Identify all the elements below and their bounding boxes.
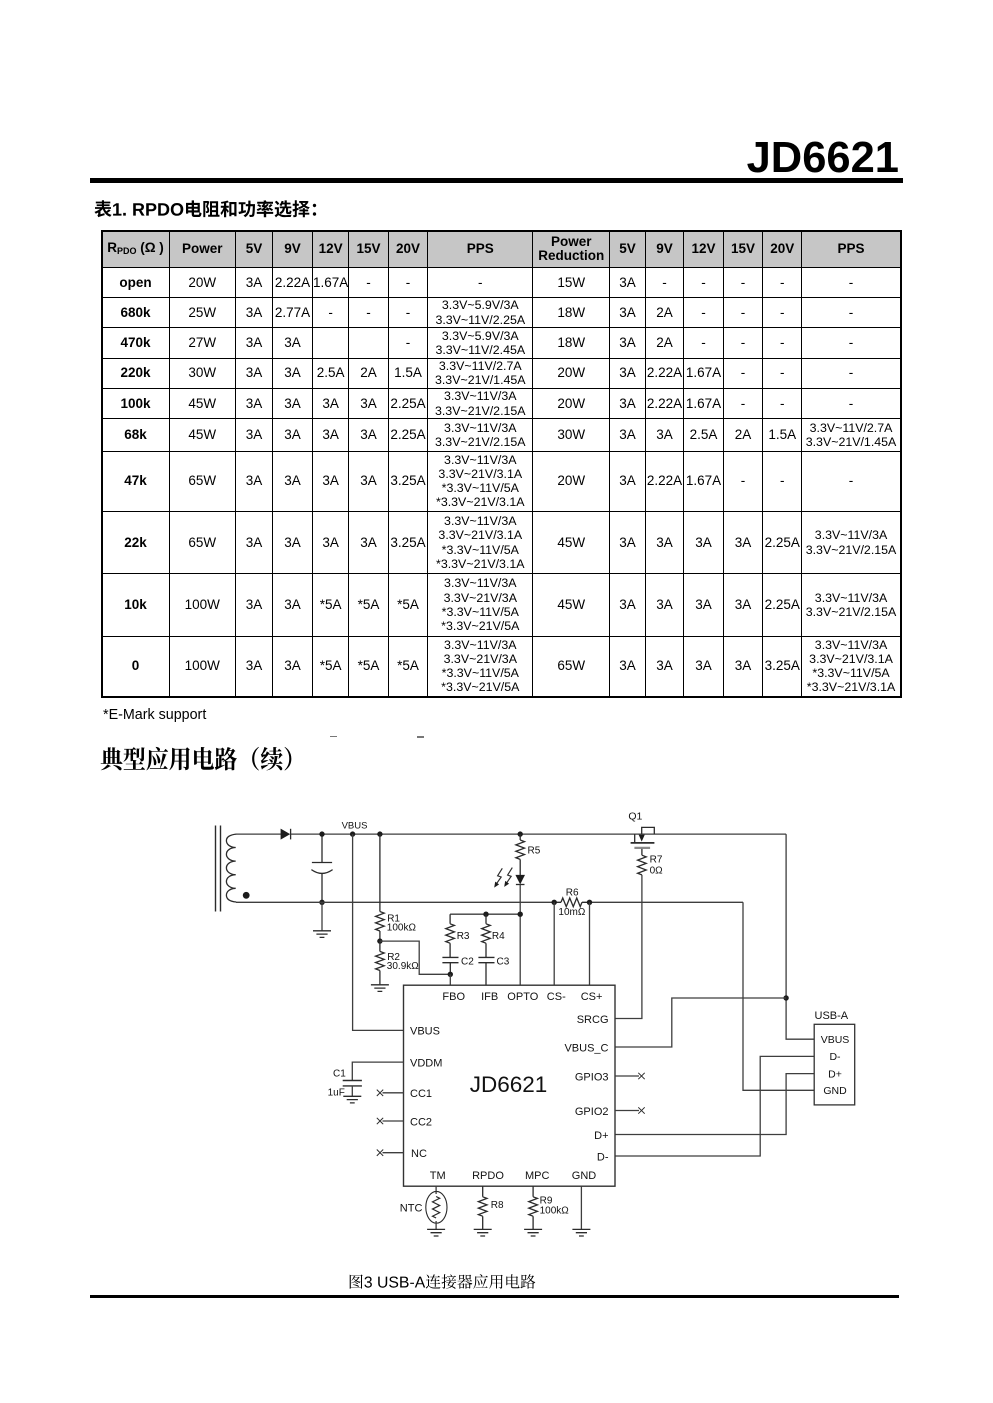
transformer T1 secondary winding bbox=[226, 834, 236, 902]
heading table 1 bbox=[94, 197, 334, 221]
svg-text:JD6621: JD6621 bbox=[470, 1072, 548, 1097]
wire CS+ to pin bbox=[589, 902, 591, 985]
wire GND bottom rail bbox=[236, 901, 743, 903]
svg-text:NC: NC bbox=[411, 1148, 427, 1160]
footnote bbox=[103, 707, 206, 723]
wire GND pin to ground bbox=[580, 1186, 582, 1229]
wire C-bulk to ground bbox=[321, 902, 323, 930]
resistor R2 bbox=[376, 941, 385, 984]
transformer T1 core bbox=[216, 826, 221, 912]
svg-text:10mΩ: 10mΩ bbox=[558, 907, 585, 918]
svg-text:VBUS: VBUS bbox=[342, 820, 368, 831]
heading: typical application circuit (cont.) bbox=[100, 744, 330, 774]
svg-text:R7: R7 bbox=[650, 855, 663, 866]
node OPTO net at pin drop bbox=[518, 912, 523, 917]
svg-text:Q1: Q1 bbox=[628, 811, 642, 823]
op-amp U1 JD6621 IC body bbox=[404, 985, 616, 1186]
svg-text:C2: C2 bbox=[461, 957, 474, 968]
ground (C1) bbox=[343, 1096, 361, 1103]
transistor Q1 (PMOS) bbox=[631, 827, 655, 855]
capacitor C3 bbox=[478, 957, 494, 962]
transformer phase dot bbox=[243, 892, 250, 899]
resistor R1 bbox=[376, 834, 385, 941]
node VBUS at R1 bbox=[377, 831, 382, 836]
wire to FBO pin bbox=[449, 974, 451, 985]
wire D+ pin to USB D+ bbox=[615, 1074, 814, 1135]
pin stub CC2 (no connect) bbox=[383, 1120, 404, 1122]
svg-text:D-: D- bbox=[829, 1051, 841, 1063]
LED of optocoupler bbox=[515, 875, 525, 885]
svg-text:VDDM: VDDM bbox=[410, 1057, 442, 1069]
pin stub NC (no connect) bbox=[383, 1152, 404, 1154]
svg-text:R4: R4 bbox=[492, 931, 505, 942]
svg-text:OPTO: OPTO bbox=[507, 991, 538, 1003]
svg-text:R6: R6 bbox=[566, 888, 579, 899]
svg-text:MPC: MPC bbox=[525, 1170, 550, 1182]
svg-text:D-: D- bbox=[597, 1151, 609, 1163]
wire VBUS to IC VBUS pin bbox=[353, 834, 404, 1030]
svg-text:GND: GND bbox=[823, 1085, 847, 1097]
svg-text:FBO: FBO bbox=[442, 991, 465, 1003]
svg-text:R5: R5 bbox=[528, 846, 541, 857]
svg-text:D+: D+ bbox=[594, 1130, 608, 1142]
figure caption bbox=[348, 1273, 543, 1293]
wire CS- to pin bbox=[553, 902, 555, 985]
wire D- pin to USB D- bbox=[615, 1056, 814, 1156]
svg-text:CS+: CS+ bbox=[581, 991, 603, 1003]
svg-text:GPIO2: GPIO2 bbox=[575, 1106, 609, 1118]
resistor R9 bbox=[529, 1186, 538, 1229]
wire GND rail down to USB GND bbox=[743, 902, 814, 1090]
node CS- bbox=[552, 900, 557, 905]
capacitor C1 bbox=[352, 1062, 403, 1080]
wire OPTO net top (R3/R4 tops) bbox=[450, 913, 520, 915]
svg-text:C3: C3 bbox=[497, 957, 510, 968]
svg-text:0Ω: 0Ω bbox=[650, 865, 664, 876]
resistor R8 bbox=[478, 1186, 487, 1229]
svg-text:30.9kΩ: 30.9kΩ bbox=[387, 961, 419, 972]
ground (R8) bbox=[474, 1229, 492, 1236]
connector USB-A bbox=[814, 1024, 855, 1105]
svg-text:1uF: 1uF bbox=[328, 1088, 345, 1099]
light arrows of optocoupler bbox=[494, 868, 512, 888]
node VBUS at IC branch bbox=[350, 831, 355, 836]
node FB junction R1/R2 bbox=[377, 938, 382, 943]
svg-text:R8: R8 bbox=[491, 1200, 504, 1211]
node OPTO net at R4 bbox=[483, 912, 488, 917]
capacitor C-bulk (input filter) bbox=[312, 834, 332, 902]
capacitor C2 bbox=[442, 957, 458, 962]
svg-text:CC2: CC2 bbox=[410, 1116, 432, 1128]
resistor R4 bbox=[482, 914, 491, 957]
node VBUS at R5 bbox=[518, 831, 523, 836]
svg-text:VBUS_C: VBUS_C bbox=[564, 1043, 608, 1055]
svg-text:RPDO: RPDO bbox=[472, 1170, 504, 1182]
document title JD6621 bbox=[0, 134, 899, 183]
svg-text:SRCG: SRCG bbox=[577, 1014, 609, 1026]
resistor R7 bbox=[638, 855, 647, 875]
wire R7 to SRCG pin bbox=[615, 875, 642, 1019]
wire FB node to FBO net bbox=[380, 941, 450, 974]
svg-text:CC1: CC1 bbox=[410, 1088, 432, 1100]
resistor R5 bbox=[516, 834, 525, 875]
resistor R3 bbox=[446, 914, 455, 957]
svg-text:TM: TM bbox=[430, 1170, 446, 1182]
svg-text:CS-: CS- bbox=[547, 991, 566, 1003]
svg-text:GPIO3: GPIO3 bbox=[575, 1071, 609, 1083]
node VBUS at C-bulk bbox=[319, 831, 324, 836]
wire VBUS_C pin to VBUS node bbox=[615, 998, 786, 1047]
scan artifacts bbox=[330, 736, 337, 738]
svg-text:NTC: NTC bbox=[400, 1202, 423, 1214]
ground (bulk cap) bbox=[313, 931, 331, 938]
svg-text:VBUS: VBUS bbox=[410, 1026, 440, 1038]
node CS+ bbox=[587, 900, 592, 905]
bottom rule bbox=[90, 1295, 899, 1298]
resistor R6 (shunt in GND rail) bbox=[554, 898, 589, 907]
svg-text:USB-A: USB-A bbox=[815, 1010, 849, 1022]
top rule bbox=[90, 178, 903, 183]
diode D1 bbox=[281, 829, 291, 840]
wire VBUS top rail (diode to corner) bbox=[291, 833, 786, 835]
thermistor NTC bbox=[435, 1186, 437, 1194]
ground (R9) bbox=[524, 1229, 542, 1236]
ground (R2) bbox=[371, 985, 389, 992]
svg-text:D+: D+ bbox=[828, 1068, 842, 1080]
wire opto LED to OPTO pin bbox=[519, 885, 521, 986]
wire VBUS rail down to USB VBUS bbox=[786, 834, 814, 1039]
ground (IC GND) bbox=[572, 1229, 590, 1236]
svg-text:IFB: IFB bbox=[481, 991, 498, 1003]
svg-text:VBUS: VBUS bbox=[821, 1034, 850, 1046]
pin stub CC1 (no connect) bbox=[383, 1092, 404, 1094]
svg-text:100kΩ: 100kΩ bbox=[540, 1205, 570, 1216]
svg-text:C1: C1 bbox=[333, 1069, 346, 1080]
pin stub GPIO2 (no connect) bbox=[615, 1110, 639, 1112]
node GND rail at C-bulk bbox=[319, 900, 324, 905]
svg-text:GND: GND bbox=[572, 1170, 597, 1182]
wire VBUS top rail (transformer to diode) bbox=[236, 833, 281, 835]
ground (NTC) bbox=[427, 1229, 445, 1236]
node FBO junction bbox=[448, 972, 453, 977]
svg-text:R3: R3 bbox=[457, 931, 470, 942]
pin stub GPIO3 (no connect) bbox=[615, 1075, 639, 1077]
svg-text:100kΩ: 100kΩ bbox=[387, 923, 417, 934]
node VBUS_C junction bbox=[783, 995, 788, 1000]
